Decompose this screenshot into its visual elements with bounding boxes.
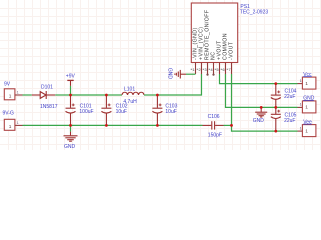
PS1 pin 1 [195,63,197,75]
wire C103 to PS1 pin2 [157,74,201,95]
junction C103 top [156,94,159,97]
junction C105 bottom on Vee rail [274,130,277,133]
connector 9V [4,89,22,100]
svg-text:2: 2 [199,68,201,72]
svg-text:1: 1 [300,126,302,130]
junction C106 / pin7 net [230,124,233,127]
ground GND port on mid rail [255,107,267,117]
svg-text:9V: 9V [4,82,11,88]
wire PS1 pin5 to Vcc connector [220,74,298,84]
wire bottom rail 9V-G to C106 [23,124,203,126]
PS1 pin 3 [207,63,209,75]
svg-text:+9V: +9V [66,73,76,79]
junction C102 top [105,94,108,97]
svg-text:1: 1 [193,68,195,72]
PS1 pin 4 no-connect dot [212,74,214,76]
svg-text:1N5817: 1N5817 [40,104,58,110]
wire PS1 pin1 to GND port [186,73,196,75]
PS1 pin 5 [219,63,221,75]
label Vcc [303,72,312,78]
capacitor C104 [271,84,281,108]
capacitor C102 [101,95,111,125]
svg-text:1: 1 [305,105,308,111]
svg-text:1: 1 [17,90,19,94]
svg-text:Vcc: Vcc [303,72,312,78]
svg-text:GND: GND [167,68,173,80]
svg-text:9V-G: 9V-G [3,110,15,116]
junction C102 bottom [105,124,108,127]
svg-text:1: 1 [305,81,308,87]
svg-text:GND: GND [64,144,76,150]
PS1 pin 6 [225,63,227,75]
svg-text:22uF: 22uF [284,94,295,100]
svg-text:4: 4 [211,68,213,72]
svg-text:TEC_2-0923: TEC_2-0923 [240,9,269,15]
svg-text:L101: L101 [124,87,135,93]
svg-text:10uF: 10uF [165,109,176,115]
wire D101 to +9V node [55,94,70,96]
wire PS1 pin7 to Vee connector [232,74,298,131]
junction C104 top on Vcc rail [274,82,277,85]
svg-text:22uF: 22uF [284,118,295,124]
inductor L101 [122,92,144,95]
wire C106 to pin7 net [224,124,232,126]
wire C102 to L101 [106,94,122,96]
component PS1 box [191,3,237,63]
connector Vcc [298,77,316,89]
connector Vee [298,125,316,137]
connector GND [298,101,316,113]
ground GND bottom-left [64,125,78,141]
diode D101 [32,91,56,99]
connector 9V-G [4,119,22,130]
svg-text:10uF: 10uF [116,109,127,115]
svg-text:150pF: 150pF [208,133,222,139]
power +9V [67,80,73,95]
svg-text:4.7uH: 4.7uH [123,99,137,105]
wire top rail to C102 [71,94,107,96]
svg-text:GND: GND [303,96,315,102]
svg-text:-VOUT: -VOUT [228,41,234,60]
PS1 pin 3 no-connect dot [206,74,208,76]
svg-text:3: 3 [205,68,207,72]
svg-text:100uF: 100uF [79,109,93,115]
svg-text:1: 1 [305,128,308,134]
svg-text:1: 1 [9,124,12,130]
svg-text:C106: C106 [208,114,220,120]
wire PS1 pin6 to GND connector [226,74,298,107]
svg-text:1: 1 [300,79,302,83]
junction C103 bottom [156,124,159,127]
svg-text:Vee: Vee [303,119,312,125]
junction C101 bottom [69,124,72,127]
capacitor C103 [152,95,162,125]
junction D101 / C101 / +9V node [69,94,72,97]
svg-text:D101: D101 [41,84,53,90]
junction GND port on mid rail [260,106,263,109]
capacitor C101 [66,95,76,125]
svg-text:7: 7 [229,68,231,72]
svg-text:1: 1 [300,103,302,107]
svg-text:5: 5 [217,68,219,72]
capacitor C106 [203,121,224,129]
svg-text:1: 1 [17,121,19,125]
junction C104 / C105 / GND rail [274,106,277,109]
label GND [303,96,315,102]
PS1 pin 7 [231,63,233,75]
svg-text:GND: GND [253,118,264,124]
svg-text:6: 6 [223,68,225,72]
PS1 pin 2 [201,63,203,75]
PS1 pin 4 [213,63,215,75]
label Vee [303,119,312,125]
wire L101 to C103 [144,94,157,96]
capacitor C105 [271,107,281,131]
svg-text:1: 1 [9,94,12,100]
ground GND port at PS1 pin1 [175,70,186,79]
wire 9V to D101 [23,94,32,96]
